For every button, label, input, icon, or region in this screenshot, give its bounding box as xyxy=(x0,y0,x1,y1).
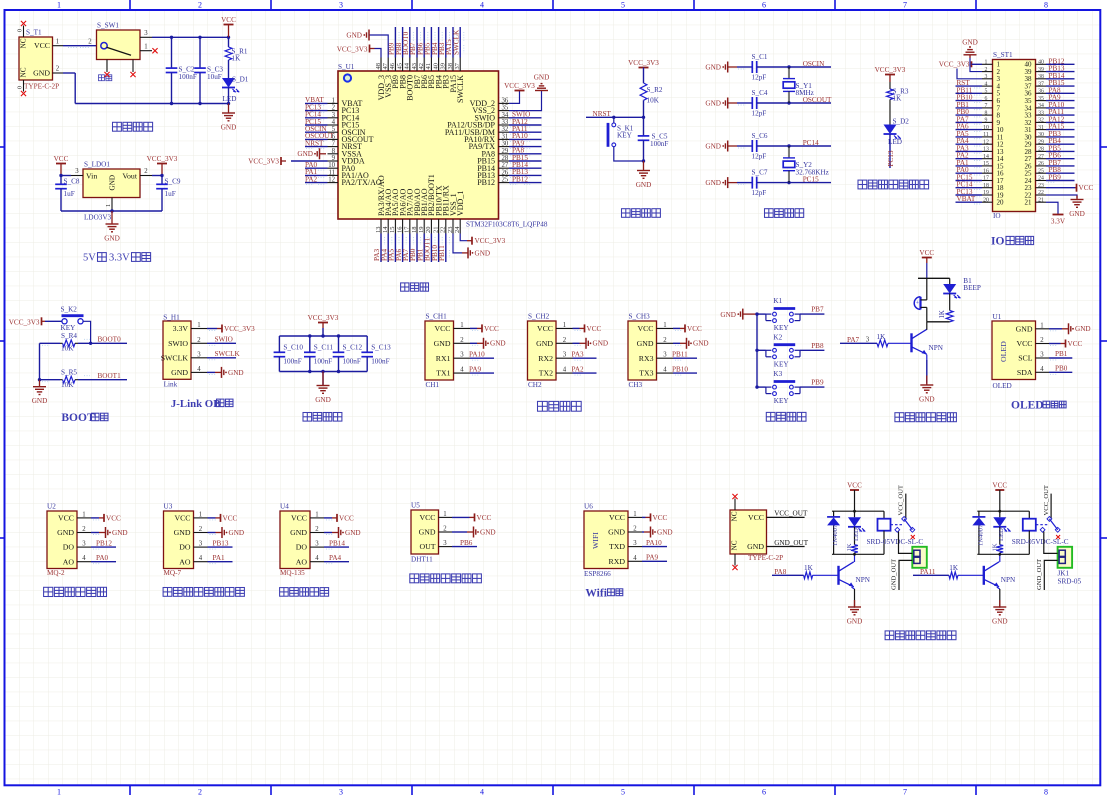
svg-text:PA3: PA3 xyxy=(572,351,585,359)
svg-text:100nF: 100nF xyxy=(283,357,301,365)
svg-text:4: 4 xyxy=(197,366,201,373)
svg-text:NPN: NPN xyxy=(1001,576,1016,584)
svg-text:1N4007: 1N4007 xyxy=(832,524,839,546)
svg-text:VCC_3V3: VCC_3V3 xyxy=(224,325,255,333)
svg-text:40: 40 xyxy=(1038,60,1044,66)
svg-text:OUT: OUT xyxy=(419,542,435,551)
svg-text:TYPE-C-2P: TYPE-C-2P xyxy=(748,554,783,562)
svg-text:3: 3 xyxy=(197,351,201,358)
svg-text:4: 4 xyxy=(985,81,988,87)
svg-text:+: + xyxy=(916,300,920,307)
svg-text:S_T1: S_T1 xyxy=(26,29,42,37)
svg-text:S_C12: S_C12 xyxy=(343,344,363,352)
svg-text:4: 4 xyxy=(315,555,319,562)
svg-text:GND: GND xyxy=(636,181,652,189)
svg-text:21: 21 xyxy=(1025,199,1033,207)
svg-text:20: 20 xyxy=(425,227,432,234)
svg-text:100nF: 100nF xyxy=(650,140,668,148)
svg-text:GND: GND xyxy=(104,235,120,243)
svg-text:S_SW1: S_SW1 xyxy=(97,22,119,30)
svg-text:8MHz: 8MHz xyxy=(796,89,814,97)
svg-text:8: 8 xyxy=(985,110,988,116)
svg-text:TX3: TX3 xyxy=(639,369,653,378)
svg-text:4: 4 xyxy=(332,119,336,126)
svg-text:10uF: 10uF xyxy=(207,73,222,81)
svg-text:PB11: PB11 xyxy=(438,245,446,261)
svg-text:1: 1 xyxy=(144,43,147,50)
svg-text:AO: AO xyxy=(63,557,75,566)
svg-text:NRST: NRST xyxy=(305,139,324,147)
svg-text:K2: K2 xyxy=(773,333,782,341)
svg-text:OLED: OLED xyxy=(993,382,1012,390)
svg-text:VCC: VCC xyxy=(174,514,190,523)
svg-text:2: 2 xyxy=(56,66,60,73)
svg-text:PA2: PA2 xyxy=(572,366,585,374)
svg-text:NRST: NRST xyxy=(593,110,612,118)
svg-text:12: 12 xyxy=(328,177,335,184)
svg-text:5: 5 xyxy=(621,788,625,795)
svg-text:16: 16 xyxy=(396,226,403,233)
svg-text:9: 9 xyxy=(332,155,336,162)
svg-text:32: 32 xyxy=(1038,118,1044,124)
svg-text:GND: GND xyxy=(171,368,188,377)
svg-text:40: 40 xyxy=(432,63,439,70)
svg-text:SWCLK: SWCLK xyxy=(452,29,460,55)
svg-text:21: 21 xyxy=(432,227,439,234)
svg-text:S_CH3: S_CH3 xyxy=(629,313,651,321)
svg-text:IO: IO xyxy=(993,212,1001,220)
svg-text:35: 35 xyxy=(1038,96,1044,102)
svg-text:Vin: Vin xyxy=(86,171,97,180)
svg-text:S_K2: S_K2 xyxy=(61,306,78,314)
svg-text:GND: GND xyxy=(297,150,313,158)
svg-text:GND: GND xyxy=(32,397,48,405)
svg-text:12pF: 12pF xyxy=(752,110,767,118)
svg-text:GND: GND xyxy=(315,396,331,404)
svg-text:PB12: PB12 xyxy=(477,178,495,187)
svg-text:LED: LED xyxy=(853,528,860,541)
svg-text:VCC: VCC xyxy=(919,249,934,257)
svg-text:PA1: PA1 xyxy=(213,554,226,562)
svg-text:GND: GND xyxy=(33,69,50,78)
svg-text:8: 8 xyxy=(1044,788,1048,795)
svg-text:3: 3 xyxy=(144,30,148,37)
svg-text:S_ST1: S_ST1 xyxy=(993,51,1013,59)
svg-text:28: 28 xyxy=(1038,147,1044,153)
svg-text:SWIO: SWIO xyxy=(215,336,233,344)
svg-text:VCC: VCC xyxy=(106,514,121,522)
svg-text:1K: 1K xyxy=(232,55,242,63)
svg-text:GND: GND xyxy=(536,339,553,348)
svg-text:2: 2 xyxy=(82,526,86,533)
svg-text:VCC: VCC xyxy=(637,324,653,333)
svg-text:GND: GND xyxy=(705,179,721,187)
svg-text:GND: GND xyxy=(693,340,709,348)
svg-text:1: 1 xyxy=(663,322,666,329)
svg-text:AO: AO xyxy=(179,557,191,566)
svg-text:2: 2 xyxy=(197,337,201,344)
svg-text:VCC: VCC xyxy=(687,325,702,333)
svg-text:K1: K1 xyxy=(773,297,782,305)
svg-text:2: 2 xyxy=(1040,337,1044,344)
svg-text:3: 3 xyxy=(443,540,447,547)
svg-text:43: 43 xyxy=(411,63,418,70)
svg-text:5: 5 xyxy=(621,1,625,10)
svg-text:3: 3 xyxy=(339,1,343,10)
svg-text:U2: U2 xyxy=(47,503,56,511)
svg-text:CH1: CH1 xyxy=(426,381,440,389)
svg-text:7: 7 xyxy=(903,788,907,795)
svg-text:VCC_OUT: VCC_OUT xyxy=(898,485,905,515)
svg-text:1: 1 xyxy=(56,38,59,45)
svg-text:1K: 1K xyxy=(877,333,887,341)
svg-text:TX2: TX2 xyxy=(539,369,553,378)
svg-text:SRD-05VDC-SL-C: SRD-05VDC-SL-C xyxy=(867,538,924,546)
svg-text:25: 25 xyxy=(1038,168,1044,174)
svg-text:GND: GND xyxy=(229,529,245,537)
svg-text:6: 6 xyxy=(985,96,988,102)
svg-text:OLED: OLED xyxy=(999,341,1008,362)
svg-text:S_R5: S_R5 xyxy=(61,368,77,376)
svg-text:1: 1 xyxy=(1040,322,1043,329)
svg-text:PB11: PB11 xyxy=(672,351,688,359)
svg-text:1: 1 xyxy=(563,322,566,329)
svg-text:15: 15 xyxy=(389,227,396,234)
svg-text:100nF: 100nF xyxy=(314,357,332,365)
svg-text:LED: LED xyxy=(998,528,1005,541)
svg-text:VCC: VCC xyxy=(339,514,354,522)
svg-text:SWCLK: SWCLK xyxy=(215,350,241,358)
svg-text:1: 1 xyxy=(106,204,112,207)
svg-text:7: 7 xyxy=(332,141,336,148)
svg-text:TX1: TX1 xyxy=(436,369,450,378)
svg-text:3: 3 xyxy=(633,540,637,547)
svg-text:JK1: JK1 xyxy=(1058,570,1070,578)
svg-text:25: 25 xyxy=(502,177,509,184)
svg-text:GND: GND xyxy=(705,99,721,107)
svg-text:SWCLK: SWCLK xyxy=(456,75,465,103)
svg-text:KEY: KEY xyxy=(774,397,790,405)
svg-text:42: 42 xyxy=(418,63,425,70)
svg-text:U3: U3 xyxy=(164,503,173,511)
svg-text:5: 5 xyxy=(985,89,988,95)
svg-text:VCC_3V3: VCC_3V3 xyxy=(9,318,40,326)
svg-text:S_D1: S_D1 xyxy=(232,76,249,84)
svg-text:23: 23 xyxy=(1038,183,1044,189)
svg-text:S_LDO1: S_LDO1 xyxy=(84,161,110,169)
svg-text:10K: 10K xyxy=(647,97,660,105)
svg-text:CH3: CH3 xyxy=(629,381,643,389)
svg-text:S_C13: S_C13 xyxy=(371,344,391,352)
svg-text:GND: GND xyxy=(290,528,307,537)
svg-text:100nF: 100nF xyxy=(343,357,361,365)
svg-text:4: 4 xyxy=(663,367,667,374)
svg-text:SCL: SCL xyxy=(1018,354,1033,363)
svg-text:16: 16 xyxy=(983,168,989,174)
svg-text:VCC_3V3: VCC_3V3 xyxy=(875,66,906,74)
svg-text:IO: IO xyxy=(991,236,1004,248)
svg-text:30: 30 xyxy=(502,141,509,148)
svg-text:28: 28 xyxy=(502,155,509,162)
svg-text:VCC: VCC xyxy=(34,41,50,50)
svg-text:GND: GND xyxy=(919,396,935,404)
svg-text:2: 2 xyxy=(88,38,92,45)
svg-text:GND: GND xyxy=(534,74,550,82)
svg-text:PC14: PC14 xyxy=(803,139,819,147)
svg-text:VCC: VCC xyxy=(477,514,492,522)
svg-text:GND: GND xyxy=(847,618,863,626)
svg-text:PA10: PA10 xyxy=(646,539,662,547)
svg-text:8: 8 xyxy=(332,148,336,155)
svg-text:PB10: PB10 xyxy=(672,366,688,374)
svg-text:44: 44 xyxy=(404,62,411,69)
svg-text:SDA: SDA xyxy=(1017,368,1033,377)
svg-text:2: 2 xyxy=(443,526,447,533)
svg-text:3: 3 xyxy=(563,352,567,359)
svg-text:36: 36 xyxy=(1038,89,1044,95)
svg-text:NPN: NPN xyxy=(929,344,944,352)
svg-text:3: 3 xyxy=(75,168,79,175)
svg-text:35: 35 xyxy=(502,105,509,112)
svg-text:1: 1 xyxy=(633,511,636,518)
svg-text:12pF: 12pF xyxy=(752,153,767,161)
svg-text:S_CH2: S_CH2 xyxy=(528,313,550,321)
svg-text:VCC_OUT: VCC_OUT xyxy=(1043,485,1050,515)
svg-text:36: 36 xyxy=(502,97,509,104)
svg-text:OSCIN: OSCIN xyxy=(803,60,825,68)
svg-text:LED: LED xyxy=(223,95,237,103)
svg-text:S_C1: S_C1 xyxy=(752,53,768,61)
svg-text:4: 4 xyxy=(633,555,637,562)
svg-text:VCC_3V3: VCC_3V3 xyxy=(147,155,178,163)
svg-text:10: 10 xyxy=(983,125,989,131)
svg-text:WIFI: WIFI xyxy=(591,532,600,549)
svg-text:SRD-05: SRD-05 xyxy=(1058,578,1082,586)
svg-text:GND: GND xyxy=(112,529,128,537)
svg-text:VCC: VCC xyxy=(419,513,435,522)
svg-text:PB14: PB14 xyxy=(329,540,345,548)
svg-text:NC: NC xyxy=(731,511,739,521)
svg-text:3: 3 xyxy=(339,788,343,795)
svg-text:VCC_OUT: VCC_OUT xyxy=(774,510,808,518)
svg-text:GND: GND xyxy=(346,31,362,39)
svg-text:33: 33 xyxy=(502,119,509,126)
svg-text:4: 4 xyxy=(480,788,484,795)
svg-text:VBAT: VBAT xyxy=(957,195,976,203)
svg-text:AO: AO xyxy=(296,557,308,566)
svg-text:2: 2 xyxy=(198,788,202,795)
svg-text:34: 34 xyxy=(502,112,509,119)
svg-text:PB12: PB12 xyxy=(96,540,112,548)
svg-text:MQ-2: MQ-2 xyxy=(47,569,65,577)
svg-text:GND: GND xyxy=(720,311,736,319)
svg-text:ESP8266: ESP8266 xyxy=(584,570,611,578)
svg-text:GND_OUT: GND_OUT xyxy=(891,559,898,590)
svg-text:8: 8 xyxy=(1044,1,1048,10)
svg-text:BOOT0: BOOT0 xyxy=(98,336,122,344)
svg-text:GND: GND xyxy=(109,175,117,191)
svg-text:SWCLK: SWCLK xyxy=(161,353,189,362)
svg-text:26: 26 xyxy=(1038,161,1044,167)
svg-text:3: 3 xyxy=(315,541,319,548)
svg-text:MQ-135: MQ-135 xyxy=(280,569,305,577)
svg-text:1uF: 1uF xyxy=(165,190,176,198)
svg-text:GND: GND xyxy=(1069,210,1085,218)
svg-text:30: 30 xyxy=(1038,132,1044,138)
svg-text:38: 38 xyxy=(1038,74,1044,80)
svg-text:KEY: KEY xyxy=(774,324,790,332)
svg-text:13: 13 xyxy=(983,147,989,153)
svg-text:PA4: PA4 xyxy=(329,554,342,562)
svg-text:1: 1 xyxy=(57,788,61,795)
svg-text:PB9: PB9 xyxy=(811,379,824,387)
svg-text:GND: GND xyxy=(962,38,978,46)
svg-text:14: 14 xyxy=(382,226,389,233)
svg-text:1: 1 xyxy=(199,511,202,518)
svg-text:PB12: PB12 xyxy=(512,175,528,183)
svg-text:19: 19 xyxy=(983,190,989,196)
svg-text:3: 3 xyxy=(199,541,203,548)
svg-text:GND: GND xyxy=(480,528,496,536)
svg-text:2: 2 xyxy=(460,337,464,344)
svg-text:10K: 10K xyxy=(61,381,74,389)
svg-text:4: 4 xyxy=(82,555,86,562)
svg-text:BOOT1: BOOT1 xyxy=(98,372,122,380)
svg-text:VCC: VCC xyxy=(58,514,74,523)
svg-text:2: 2 xyxy=(332,105,336,112)
svg-text:PA9: PA9 xyxy=(646,554,659,562)
svg-text:3: 3 xyxy=(866,337,870,344)
svg-text:0: 0 xyxy=(18,29,24,32)
svg-text:33: 33 xyxy=(1038,110,1044,116)
svg-text:31: 31 xyxy=(1038,125,1044,131)
svg-text:VCC_3V3: VCC_3V3 xyxy=(248,157,279,165)
svg-text:VCC_3V3: VCC_3V3 xyxy=(939,61,970,69)
svg-text:VCC_3V3: VCC_3V3 xyxy=(504,82,535,90)
svg-text:VCC_3V3: VCC_3V3 xyxy=(475,237,506,245)
svg-text:2: 2 xyxy=(144,168,148,175)
svg-text:VCC: VCC xyxy=(1079,184,1094,192)
svg-text:32.768KHz: 32.768KHz xyxy=(796,168,829,176)
svg-text:VCC: VCC xyxy=(847,481,862,489)
svg-text:GND: GND xyxy=(221,124,237,132)
svg-text:S_C6: S_C6 xyxy=(752,132,768,140)
svg-text:3: 3 xyxy=(663,352,667,359)
svg-text:PA0: PA0 xyxy=(96,554,109,562)
svg-text:GND: GND xyxy=(174,528,191,537)
svg-text:37: 37 xyxy=(1038,81,1044,87)
svg-text:RX1: RX1 xyxy=(436,354,451,363)
svg-text:GND_OUT: GND_OUT xyxy=(1036,559,1043,590)
svg-text:PB1: PB1 xyxy=(1055,350,1068,358)
svg-text:2: 2 xyxy=(633,526,637,533)
svg-text:1K: 1K xyxy=(939,310,946,318)
svg-text:NC: NC xyxy=(20,67,28,77)
svg-text:3.3V: 3.3V xyxy=(109,253,130,264)
svg-text:BOOT: BOOT xyxy=(61,412,95,424)
svg-text:23: 23 xyxy=(447,227,454,234)
svg-text:S_C10: S_C10 xyxy=(283,344,303,352)
svg-text:VCC: VCC xyxy=(537,324,553,333)
svg-text:S_R4: S_R4 xyxy=(61,332,77,340)
svg-text:1K: 1K xyxy=(893,95,903,103)
svg-text:DHT11: DHT11 xyxy=(411,555,433,563)
svg-text:RX2: RX2 xyxy=(538,354,553,363)
svg-text:S_D2: S_D2 xyxy=(893,118,910,126)
svg-text:GND: GND xyxy=(657,528,673,536)
svg-text:3.3V: 3.3V xyxy=(1051,217,1066,225)
svg-text:GND: GND xyxy=(593,340,609,348)
svg-text:PC15: PC15 xyxy=(803,176,819,184)
svg-text:MQ-7: MQ-7 xyxy=(164,569,182,577)
svg-text:22: 22 xyxy=(1038,190,1044,196)
svg-text:Link: Link xyxy=(164,381,178,389)
svg-text:14: 14 xyxy=(983,154,989,160)
svg-text:PB7: PB7 xyxy=(811,306,824,314)
svg-text:TYPE-C-2P: TYPE-C-2P xyxy=(24,83,59,91)
svg-text:19: 19 xyxy=(418,227,425,234)
svg-text:37: 37 xyxy=(454,62,461,69)
svg-text:3: 3 xyxy=(985,74,988,80)
svg-text:S_H1: S_H1 xyxy=(163,313,180,321)
svg-text:4: 4 xyxy=(1040,366,1044,373)
svg-text:GND: GND xyxy=(1016,324,1033,333)
svg-text:NC: NC xyxy=(20,38,28,48)
svg-text:4: 4 xyxy=(563,367,567,374)
svg-text:1: 1 xyxy=(82,511,85,518)
svg-text:SRD-05VDC-SL-C: SRD-05VDC-SL-C xyxy=(1012,538,1069,546)
svg-text:GND: GND xyxy=(608,528,625,537)
svg-text:GND: GND xyxy=(705,63,721,71)
svg-text:S_C4: S_C4 xyxy=(752,89,768,97)
svg-text:U1: U1 xyxy=(993,313,1002,321)
svg-text:RXD: RXD xyxy=(609,557,626,566)
svg-text:7: 7 xyxy=(985,103,988,109)
svg-text:100nF: 100nF xyxy=(179,73,197,81)
svg-text:VCC: VCC xyxy=(587,325,602,333)
svg-text:GND: GND xyxy=(475,249,491,257)
svg-text:PB6: PB6 xyxy=(460,539,473,547)
svg-text:GND: GND xyxy=(345,529,361,537)
svg-text:VCC_3V3: VCC_3V3 xyxy=(308,314,339,322)
svg-text:3: 3 xyxy=(332,112,336,119)
svg-text:GND: GND xyxy=(637,339,654,348)
svg-text:3: 3 xyxy=(1040,352,1044,359)
svg-text:18: 18 xyxy=(411,227,418,234)
svg-text:U6: U6 xyxy=(584,503,593,511)
svg-text:PB8: PB8 xyxy=(811,342,824,350)
svg-text:VCC: VCC xyxy=(653,514,668,522)
svg-text:PB0: PB0 xyxy=(1055,365,1068,373)
svg-text:12: 12 xyxy=(983,139,989,145)
svg-text:29: 29 xyxy=(502,148,509,155)
svg-text:1: 1 xyxy=(985,60,988,66)
svg-text:2: 2 xyxy=(198,1,202,10)
svg-text:VCC: VCC xyxy=(434,324,450,333)
svg-text:20: 20 xyxy=(997,199,1005,207)
svg-text:PB13: PB13 xyxy=(213,540,229,548)
svg-text:2: 2 xyxy=(199,526,203,533)
svg-text:39: 39 xyxy=(1038,67,1044,73)
svg-text:CH2: CH2 xyxy=(528,381,542,389)
svg-text:VCC: VCC xyxy=(221,16,236,24)
svg-text:S_C7: S_C7 xyxy=(752,169,768,177)
svg-text:VCC: VCC xyxy=(748,513,764,522)
svg-text:KEY: KEY xyxy=(774,360,790,368)
svg-text:4: 4 xyxy=(480,1,484,10)
svg-text:11: 11 xyxy=(328,169,335,176)
svg-text:32: 32 xyxy=(502,126,509,133)
